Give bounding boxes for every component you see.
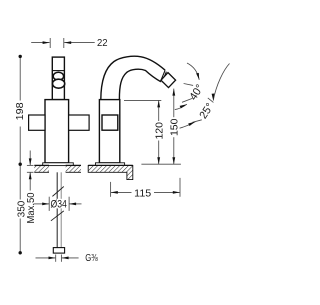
dim 198/350 vertical <box>19 56 21 100</box>
arrowheads <box>29 41 215 259</box>
dim O34 <box>34 203 49 205</box>
svg-text:150: 150 <box>170 118 181 136</box>
side deck slab hatch <box>88 165 133 179</box>
G3/8 arrows <box>49 257 56 260</box>
angle 40 arc upper <box>187 63 199 80</box>
dim 115 <box>110 182 112 197</box>
svg-text:115: 115 <box>134 188 151 199</box>
dim 120 vertical <box>158 100 160 121</box>
side body <box>99 100 119 163</box>
angle 40 arc lower <box>175 104 187 109</box>
spout ellipse upper <box>53 72 63 80</box>
angle 40 tick upper <box>184 84 194 86</box>
Max.50 dim <box>29 151 31 166</box>
shank line left <box>56 172 58 247</box>
aerator diamond <box>161 73 176 88</box>
spout ellipse lower (aerator front) <box>53 79 65 88</box>
extension line right of deck <box>141 163 181 165</box>
Max50 arrows <box>29 158 32 165</box>
dots on 198/350 line <box>19 55 22 58</box>
angle 40 tick lower <box>182 98 192 102</box>
handle left arm <box>29 115 45 130</box>
leader at spout base level <box>124 99 161 101</box>
handle right arm <box>69 115 90 130</box>
deck hatch right <box>66 165 81 172</box>
base plate front <box>43 163 74 166</box>
nut <box>53 248 64 254</box>
115 arrows <box>111 191 118 194</box>
22 arrows <box>43 41 50 44</box>
svg-text:Max.50: Max.50 <box>26 192 37 223</box>
side base plate <box>96 163 125 166</box>
dim G3/8 <box>36 257 56 259</box>
40deg arrows <box>196 73 199 80</box>
angle 25 tick lower <box>193 120 202 123</box>
dim 150 vertical <box>173 89 175 118</box>
dim 22 lines <box>31 42 49 44</box>
body front <box>45 100 69 163</box>
spout outer curve <box>101 56 165 100</box>
deck hatch left <box>34 165 49 172</box>
svg-text:22: 22 <box>97 38 108 49</box>
O34 arrows <box>42 203 49 206</box>
25deg arrows <box>212 94 215 101</box>
side handle square <box>102 115 118 130</box>
break mark upper <box>52 187 63 197</box>
angle 25 arc lower <box>180 122 196 129</box>
angle 25 arc upper <box>213 64 229 101</box>
angle 25 tick upper <box>208 98 214 103</box>
shank line right <box>60 172 62 247</box>
svg-text:120: 120 <box>155 122 166 140</box>
break mark lower <box>51 211 64 221</box>
svg-text:198: 198 <box>15 102 26 120</box>
svg-text:G⅜: G⅜ <box>85 253 98 264</box>
spout neck rect front <box>52 57 64 100</box>
neck divider line <box>52 70 64 72</box>
150 arrows <box>172 89 175 96</box>
spout inner curve <box>119 69 161 100</box>
svg-text:Ø34: Ø34 <box>51 198 67 210</box>
spout end joint lines <box>161 70 165 81</box>
120 arrows <box>157 100 160 107</box>
